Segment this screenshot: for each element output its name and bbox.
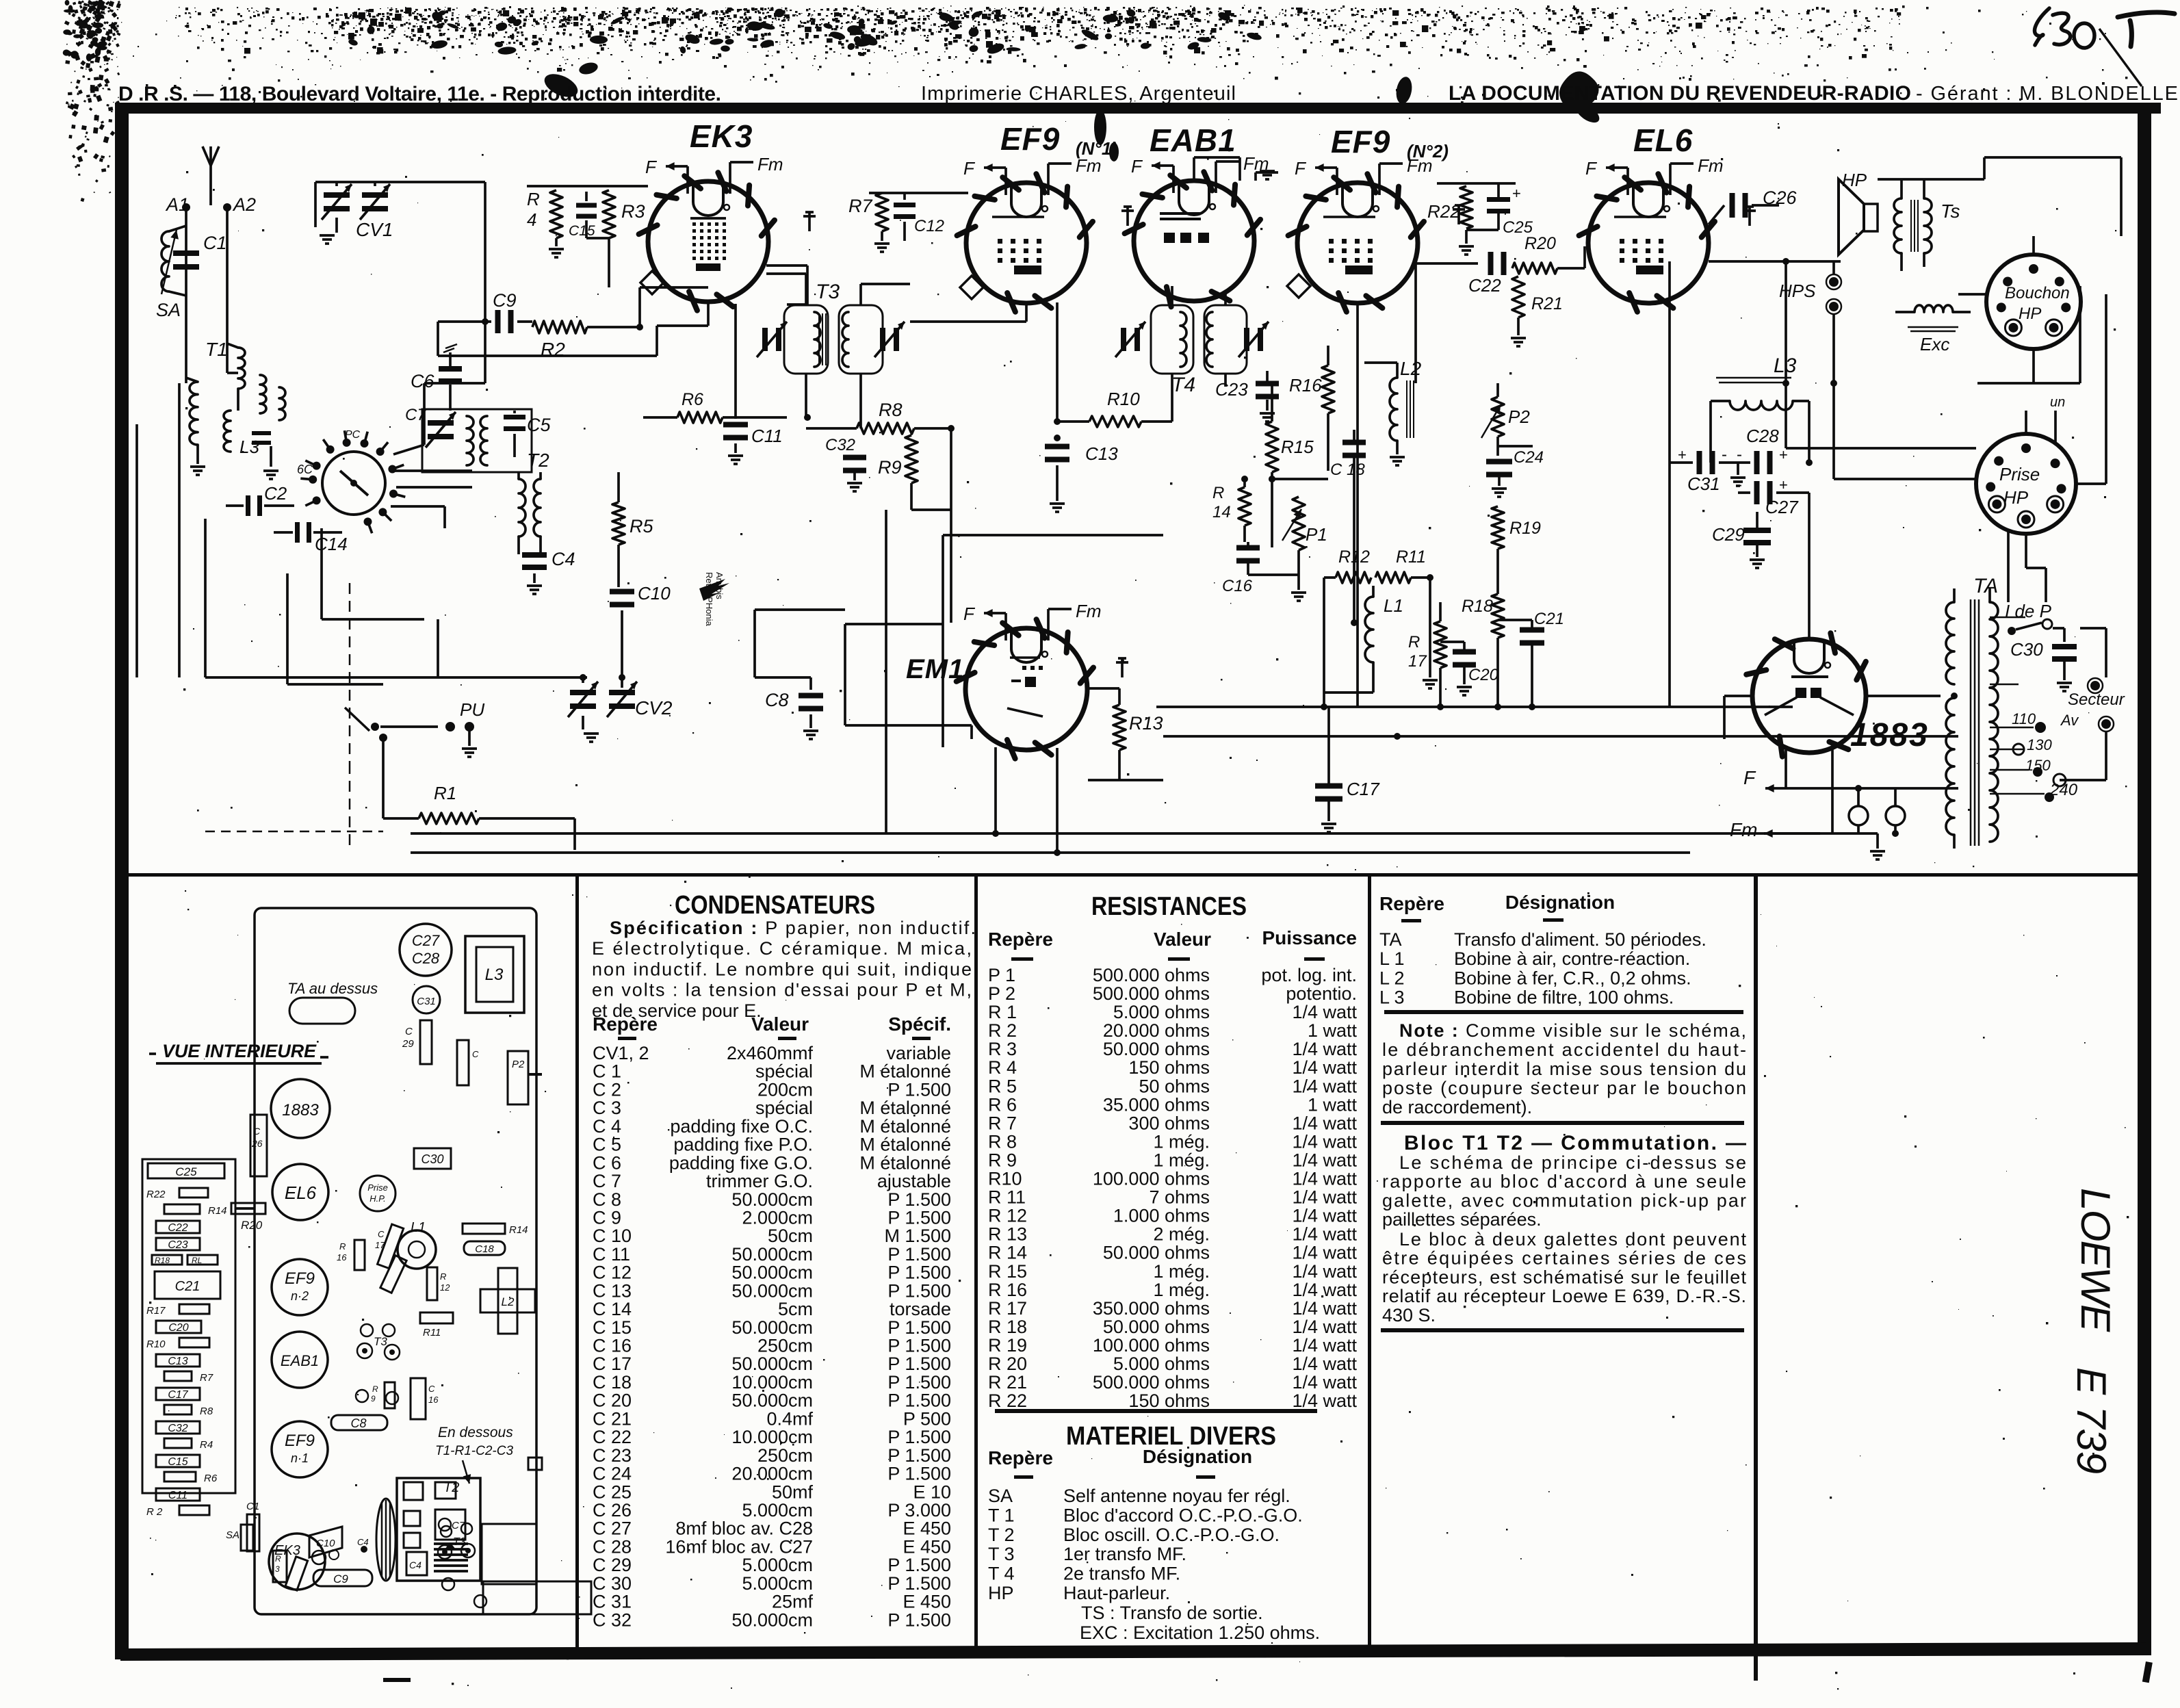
svg-text:C17: C17 <box>1347 779 1380 799</box>
svg-text:C4: C4 <box>409 1560 421 1570</box>
svg-text:SA: SA <box>988 1486 1013 1506</box>
svg-text:R9: R9 <box>878 457 902 478</box>
svg-text:C32: C32 <box>168 1423 187 1434</box>
svg-text:SA: SA <box>156 300 181 320</box>
svg-text:PC: PC <box>345 429 361 441</box>
svg-text:R 6: R 6 <box>988 1094 1017 1115</box>
svg-text:C20: C20 <box>168 1322 188 1334</box>
svg-text:padding fixe P.O.: padding fixe P.O. <box>673 1135 813 1155</box>
svg-text:Repère: Repère <box>1379 893 1444 914</box>
svg-text:T 4: T 4 <box>988 1564 1015 1584</box>
svg-text:R: R <box>527 189 540 209</box>
svg-text:R 1: R 1 <box>988 1002 1017 1022</box>
svg-text:C20: C20 <box>1468 666 1499 684</box>
svg-text:F: F <box>963 158 976 179</box>
svg-text:R11: R11 <box>423 1327 441 1338</box>
svg-text:C 5: C 5 <box>593 1135 621 1155</box>
svg-text:R 3: R 3 <box>988 1039 1017 1059</box>
svg-text:R 15: R 15 <box>988 1261 1027 1282</box>
svg-text:C22: C22 <box>168 1222 187 1234</box>
svg-text:R3: R3 <box>621 201 645 222</box>
svg-text:C2: C2 <box>264 483 287 504</box>
svg-text:EF9: EF9 <box>1000 121 1060 157</box>
svg-text:CV2: CV2 <box>635 697 673 719</box>
svg-text:R: R <box>440 1271 446 1282</box>
svg-text:+: + <box>1678 446 1687 463</box>
svg-text:de raccordement).: de raccordement). <box>1382 1097 1532 1117</box>
svg-text:P 1.500: P 1.500 <box>887 1336 951 1356</box>
svg-text:P 1.500: P 1.500 <box>887 1555 951 1575</box>
svg-text:C25: C25 <box>175 1165 197 1178</box>
svg-text:C8: C8 <box>350 1416 366 1430</box>
svg-text:350.000 ohms: 350.000 ohms <box>1093 1298 1210 1319</box>
svg-text:50.000cm: 50.000cm <box>731 1244 813 1265</box>
svg-text:LOEWE: LOEWE <box>2073 1188 2118 1333</box>
svg-text:C27: C27 <box>1765 497 1799 517</box>
svg-text:100.000 ohms: 100.000 ohms <box>1093 1335 1210 1356</box>
svg-text:R4: R4 <box>200 1439 213 1451</box>
svg-text:Fm: Fm <box>1076 601 1102 621</box>
svg-text:C 29: C 29 <box>593 1555 632 1575</box>
svg-text:C32: C32 <box>825 436 855 454</box>
svg-text:En dessous: En dessous <box>438 1425 513 1440</box>
svg-text:25mf: 25mf <box>772 1592 814 1612</box>
svg-text:C 16: C 16 <box>593 1336 632 1356</box>
svg-text:1 watt: 1 watt <box>1308 1094 1358 1115</box>
svg-text:F: F <box>1743 767 1756 788</box>
svg-text:50.000cm: 50.000cm <box>731 1280 813 1301</box>
svg-text:torsade: torsade <box>890 1299 951 1319</box>
svg-text:C15: C15 <box>168 1456 187 1468</box>
svg-text:130: 130 <box>2027 736 2052 753</box>
svg-text:1/4 watt: 1/4 watt <box>1292 1298 1357 1319</box>
svg-text:D .R .S. — 118, Boulevard Volt: D .R .S. — 118, Boulevard Voltaire, 11e.… <box>118 83 721 105</box>
svg-text:5.000cm: 5.000cm <box>742 1555 813 1575</box>
svg-text:C 28: C 28 <box>593 1536 632 1557</box>
svg-text:C21: C21 <box>1534 610 1564 628</box>
svg-text:C 26: C 26 <box>593 1500 632 1521</box>
svg-text:T1: T1 <box>205 339 228 360</box>
svg-text:Valeur: Valeur <box>751 1013 809 1035</box>
svg-text:R12: R12 <box>1338 547 1370 567</box>
svg-text:M étalonné: M étalonné <box>859 1116 951 1137</box>
svg-text:C 6: C 6 <box>593 1152 621 1173</box>
svg-text:4: 4 <box>527 209 536 230</box>
svg-text:C 23: C 23 <box>593 1445 632 1466</box>
svg-text:P 1.500: P 1.500 <box>887 1189 951 1210</box>
svg-text:P1: P1 <box>1306 524 1327 545</box>
svg-text:50.000cm: 50.000cm <box>731 1354 813 1374</box>
svg-text:C 14: C 14 <box>593 1299 632 1319</box>
svg-text:5.000 ohms: 5.000 ohms <box>1113 1354 1210 1374</box>
svg-text:padding fixe O.C.: padding fixe O.C. <box>670 1116 813 1137</box>
svg-text:0.4mf: 0.4mf <box>766 1408 813 1429</box>
svg-text:C 32: C 32 <box>593 1609 632 1630</box>
svg-text:T3: T3 <box>816 281 840 303</box>
svg-text:C28: C28 <box>1746 426 1779 446</box>
svg-text:P 1.500: P 1.500 <box>887 1079 951 1100</box>
svg-text:P2: P2 <box>512 1059 525 1070</box>
svg-text:C11: C11 <box>751 426 783 446</box>
svg-text:1/4 watt: 1/4 watt <box>1292 1057 1357 1078</box>
svg-text:2.000cm: 2.000cm <box>742 1208 813 1228</box>
svg-text:5.000cm: 5.000cm <box>742 1500 813 1521</box>
svg-text:1/4 watt: 1/4 watt <box>1292 1261 1357 1282</box>
svg-text:A2: A2 <box>232 194 256 215</box>
svg-text:10.000cm: 10.000cm <box>731 1372 813 1393</box>
svg-text:VUE INTERIEURE: VUE INTERIEURE <box>162 1041 317 1061</box>
svg-text:R 2: R 2 <box>146 1506 163 1518</box>
svg-text:1/4 watt: 1/4 watt <box>1292 1076 1357 1096</box>
svg-text:C13: C13 <box>1085 443 1118 464</box>
svg-text:C 27: C 27 <box>593 1518 632 1539</box>
svg-text:TA: TA <box>1379 929 1402 950</box>
svg-text:P 1.500: P 1.500 <box>887 1390 951 1411</box>
svg-text:PU: PU <box>460 699 484 720</box>
svg-text:50mf: 50mf <box>772 1481 814 1502</box>
svg-text:P 1.500: P 1.500 <box>887 1573 951 1594</box>
svg-text:R 9: R 9 <box>988 1150 1017 1171</box>
svg-text:non inductif. Le nombre qui su: non inductif. Le nombre qui suit, indiqu… <box>592 959 972 979</box>
svg-text:R 20: R 20 <box>988 1354 1027 1374</box>
svg-text:spécial: spécial <box>755 1098 813 1118</box>
svg-text:1/4 watt: 1/4 watt <box>1292 1002 1357 1022</box>
svg-text:C: C <box>428 1384 435 1394</box>
svg-text:M 1.500: M 1.500 <box>884 1226 951 1246</box>
svg-text:T 1: T 1 <box>988 1505 1015 1525</box>
svg-text:M étalonné: M étalonné <box>859 1135 951 1155</box>
svg-text:T2: T2 <box>527 450 549 471</box>
svg-text:35.000 ohms: 35.000 ohms <box>1103 1094 1210 1115</box>
svg-text:-: - <box>1737 445 1742 464</box>
svg-text:1/4 watt: 1/4 watt <box>1292 1206 1357 1226</box>
svg-text:EM1: EM1 <box>906 654 964 684</box>
svg-text:+: + <box>1779 476 1788 493</box>
svg-text:TA au dessus: TA au dessus <box>287 980 378 997</box>
svg-text:L 2: L 2 <box>1379 968 1405 988</box>
svg-text:E 450: E 450 <box>903 1518 951 1539</box>
svg-text:M étalonné: M étalonné <box>859 1061 951 1082</box>
svg-text:500.000 ohms: 500.000 ohms <box>1093 965 1210 985</box>
svg-text:F: F <box>645 157 658 177</box>
svg-text:EF9: EF9 <box>1331 124 1390 159</box>
svg-text:R1: R1 <box>434 783 456 803</box>
svg-text:50.000 ohms: 50.000 ohms <box>1103 1243 1210 1263</box>
svg-text:C 18: C 18 <box>1330 461 1365 479</box>
svg-text:50.000 ohms: 50.000 ohms <box>1103 1317 1210 1337</box>
svg-text:C 24: C 24 <box>593 1464 632 1484</box>
svg-text:C 11: C 11 <box>593 1244 630 1265</box>
svg-text:P 1.500: P 1.500 <box>887 1317 951 1338</box>
svg-text:C 3: C 3 <box>593 1098 621 1118</box>
svg-text:5.000cm: 5.000cm <box>742 1573 813 1594</box>
svg-text:R5: R5 <box>630 516 653 536</box>
svg-text:17: 17 <box>1408 652 1427 671</box>
svg-text:C17: C17 <box>168 1389 188 1401</box>
svg-text:14: 14 <box>1212 503 1231 521</box>
svg-text:E 739: E 739 <box>2068 1367 2114 1475</box>
svg-text:C14: C14 <box>315 534 348 554</box>
svg-text:Bobine de filtre, 100 ohms.: Bobine de filtre, 100 ohms. <box>1454 987 1674 1008</box>
svg-text:Haut-parleur.: Haut-parleur. <box>1063 1583 1170 1603</box>
svg-text:20.000 ohms: 20.000 ohms <box>1103 1020 1210 1041</box>
svg-text:P 1.500: P 1.500 <box>887 1263 951 1283</box>
svg-text:R 8: R 8 <box>988 1131 1017 1152</box>
svg-text:M étalonné: M étalonné <box>859 1152 951 1173</box>
svg-text:R 22: R 22 <box>988 1390 1027 1411</box>
svg-text:TA: TA <box>1973 575 1998 597</box>
svg-text:C 15: C 15 <box>593 1317 632 1338</box>
svg-text:C 7: C 7 <box>593 1171 621 1191</box>
svg-text:EAB1: EAB1 <box>281 1352 319 1369</box>
svg-text:1er transfo MF.: 1er transfo MF. <box>1063 1544 1186 1564</box>
svg-text:1 watt: 1 watt <box>1308 1020 1358 1041</box>
svg-text:trimmer G.O.: trimmer G.O. <box>706 1171 813 1191</box>
svg-text:R13: R13 <box>1129 713 1163 734</box>
svg-text:50.000cm: 50.000cm <box>731 1609 813 1630</box>
svg-text:TS : Transfo de sortie.: TS : Transfo de sortie. <box>1081 1603 1263 1623</box>
svg-text:1.000 ohms: 1.000 ohms <box>1113 1206 1210 1226</box>
svg-text:R10: R10 <box>1107 389 1140 409</box>
svg-text:1/4 watt: 1/4 watt <box>1292 1187 1357 1208</box>
svg-text:L3: L3 <box>1774 354 1797 377</box>
svg-text:Fm: Fm <box>1698 155 1724 176</box>
svg-text:1/4 watt: 1/4 watt <box>1292 1354 1357 1374</box>
svg-text:150 ohms: 150 ohms <box>1128 1390 1210 1411</box>
svg-text:C 22: C 22 <box>593 1427 632 1447</box>
svg-text:relatif au récepteur Loewe E 6: relatif au récepteur Loewe E 639, D.-R.-… <box>1382 1286 1746 1306</box>
svg-text:RESISTANCES: RESISTANCES <box>1091 892 1247 921</box>
svg-text:2 még.: 2 még. <box>1153 1224 1210 1245</box>
svg-text:rapporte au bloc d'accord à un: rapporte au bloc d'accord à une seule <box>1382 1172 1746 1192</box>
svg-text:n·2: n·2 <box>291 1289 309 1303</box>
svg-text:+: + <box>1512 185 1521 202</box>
svg-text:C24: C24 <box>1514 448 1544 467</box>
svg-text:C9: C9 <box>333 1573 348 1586</box>
svg-text:un: un <box>2050 395 2065 410</box>
svg-text:C28: C28 <box>412 950 440 967</box>
svg-text:ajustable: ajustable <box>877 1171 951 1191</box>
svg-text:R6: R6 <box>682 390 703 409</box>
svg-text:T4: T4 <box>1171 374 1195 396</box>
svg-text:1/4 watt: 1/4 watt <box>1292 1131 1357 1152</box>
svg-text:Bobine à fer, C.R., 0,2 ohms.: Bobine à fer, C.R., 0,2 ohms. <box>1454 968 1691 988</box>
svg-text:29: 29 <box>402 1038 414 1050</box>
svg-text:L 1: L 1 <box>1379 948 1405 969</box>
svg-text:T 2: T 2 <box>988 1525 1015 1545</box>
svg-text:CONDENSATEURS: CONDENSATEURS <box>675 891 875 920</box>
svg-text:R 13: R 13 <box>988 1224 1027 1245</box>
svg-text:C 8: C 8 <box>593 1189 621 1210</box>
svg-text:Bloc d'accord O.C.-P.O.-G.O.: Bloc d'accord O.C.-P.O.-G.O. <box>1063 1505 1303 1525</box>
svg-text:L3: L3 <box>485 966 504 984</box>
svg-text:1/4 watt: 1/4 watt <box>1292 1039 1357 1059</box>
svg-text:1/4 watt: 1/4 watt <box>1292 1224 1357 1245</box>
svg-text:parleur interdit la mise sous: parleur interdit la mise sous tension du <box>1382 1059 1746 1079</box>
svg-text:T3: T3 <box>374 1335 387 1348</box>
svg-text:1/4 watt: 1/4 watt <box>1292 1390 1357 1411</box>
svg-text:C18: C18 <box>475 1243 494 1255</box>
svg-text:R 11: R 11 <box>988 1187 1026 1208</box>
svg-text:R7: R7 <box>848 196 872 216</box>
svg-text:50.000cm: 50.000cm <box>731 1390 813 1411</box>
svg-text:1 még.: 1 még. <box>1153 1280 1210 1300</box>
svg-text:R8: R8 <box>200 1406 213 1417</box>
svg-text:50cm: 50cm <box>768 1226 813 1246</box>
svg-text:C22: C22 <box>1468 275 1501 296</box>
svg-text:C: C <box>472 1049 479 1059</box>
svg-text:SA: SA <box>226 1529 239 1541</box>
svg-text:EF9: EF9 <box>285 1269 315 1288</box>
svg-text:16: 16 <box>337 1252 347 1263</box>
svg-text:L3: L3 <box>239 437 259 457</box>
svg-text:R18: R18 <box>1462 597 1493 616</box>
svg-text:Fm: Fm <box>757 154 783 174</box>
svg-text:C: C <box>378 1229 385 1239</box>
svg-text:F: F <box>1295 158 1307 179</box>
svg-text:Anubis: Anubis <box>714 572 725 599</box>
svg-text:C 12: C 12 <box>593 1263 632 1283</box>
svg-text:C: C <box>253 1126 261 1137</box>
svg-text:Puissance: Puissance <box>1262 927 1357 948</box>
svg-text:R14: R14 <box>509 1224 528 1236</box>
svg-text:P 1.500: P 1.500 <box>887 1280 951 1301</box>
svg-text:C4: C4 <box>552 549 575 569</box>
svg-text:Bloc T1 T2 — Commutation. —: Bloc T1 T2 — Commutation. — <box>1404 1132 1746 1154</box>
svg-text:1/4 watt: 1/4 watt <box>1292 1372 1357 1393</box>
svg-text:P 500: P 500 <box>903 1408 951 1429</box>
svg-text:Repère: Repère <box>988 929 1053 950</box>
svg-text:Valeur: Valeur <box>1154 929 1211 950</box>
svg-text:Self antenne noyau fer régl.: Self antenne noyau fer régl. <box>1063 1486 1290 1506</box>
svg-text:EAB1: EAB1 <box>1150 122 1236 158</box>
svg-text:C8: C8 <box>765 690 789 710</box>
svg-text:R 21: R 21 <box>988 1372 1027 1393</box>
svg-text:P 2: P 2 <box>988 983 1015 1004</box>
svg-text:7 ohms: 7 ohms <box>1149 1187 1210 1208</box>
svg-text:Av: Av <box>2060 712 2079 729</box>
svg-text:20.000cm: 20.000cm <box>731 1464 813 1484</box>
svg-text:P 3.000: P 3.000 <box>887 1500 951 1521</box>
svg-text:5.000 ohms: 5.000 ohms <box>1113 1002 1210 1022</box>
svg-text:L2: L2 <box>502 1295 515 1308</box>
svg-text:H.P.: H.P. <box>369 1193 386 1204</box>
svg-text:Prise: Prise <box>1999 464 2040 484</box>
svg-text:500.000 ohms: 500.000 ohms <box>1093 1372 1210 1393</box>
svg-text:R20: R20 <box>241 1219 263 1232</box>
svg-text:P 1.500: P 1.500 <box>887 1464 951 1484</box>
svg-text:R10: R10 <box>988 1169 1022 1189</box>
svg-text:12: 12 <box>440 1282 450 1293</box>
svg-text:1883: 1883 <box>282 1101 319 1120</box>
svg-text:R: R <box>275 1554 281 1564</box>
svg-text:C13: C13 <box>168 1356 187 1367</box>
svg-text:26: 26 <box>251 1138 263 1149</box>
svg-text:C 21: C 21 <box>593 1408 632 1429</box>
svg-text:R11: R11 <box>1396 547 1426 567</box>
svg-text:R 2: R 2 <box>988 1020 1017 1041</box>
svg-text:1/4 watt: 1/4 watt <box>1292 1280 1357 1300</box>
svg-text:R 14: R 14 <box>988 1243 1027 1263</box>
svg-text:L2: L2 <box>1400 358 1422 379</box>
svg-text:C: C <box>405 1026 413 1037</box>
svg-text:1 még.: 1 még. <box>1153 1150 1210 1171</box>
svg-text:pot. log. int.: pot. log. int. <box>1261 965 1357 985</box>
svg-text:2x460mmf: 2x460mmf <box>727 1043 814 1063</box>
svg-text:1/4 watt: 1/4 watt <box>1292 1113 1357 1133</box>
svg-text:E 450: E 450 <box>903 1592 951 1612</box>
svg-text:HP: HP <box>988 1583 1014 1603</box>
svg-text:Le bloc à deux galettes dont p: Le bloc à deux galettes dont peuvent <box>1399 1229 1746 1250</box>
svg-text:50.000cm: 50.000cm <box>731 1189 813 1210</box>
svg-text:430 S.: 430 S. <box>1382 1305 1436 1325</box>
svg-text:HP: HP <box>2019 305 2041 323</box>
svg-text:en volts : la tension d'essai: en volts : la tension d'essai pour P et … <box>592 980 972 1000</box>
svg-text:RL: RL <box>192 1256 202 1265</box>
svg-text:R19: R19 <box>1509 519 1541 538</box>
svg-text:Retro-PHonia: Retro-PHonia <box>704 572 714 627</box>
svg-text:potentio.: potentio. <box>1286 983 1357 1004</box>
svg-text:300 ohms: 300 ohms <box>1128 1113 1210 1133</box>
svg-text:L1: L1 <box>411 1220 426 1235</box>
svg-text:F: F <box>1585 158 1598 179</box>
svg-text:C6: C6 <box>411 371 434 391</box>
svg-text:1/4 watt: 1/4 watt <box>1292 1150 1357 1171</box>
svg-text:+: + <box>1779 446 1788 463</box>
svg-text:C15: C15 <box>569 223 595 239</box>
svg-text:100.000 ohms: 100.000 ohms <box>1093 1169 1210 1189</box>
svg-text:R17: R17 <box>146 1305 166 1317</box>
svg-text:R21: R21 <box>1531 294 1563 313</box>
svg-text:R10: R10 <box>146 1338 166 1350</box>
svg-text:poste (coupure secteur par le: poste (coupure secteur par le bouchon <box>1382 1078 1746 1098</box>
svg-text:1 még.: 1 még. <box>1153 1131 1210 1152</box>
svg-text:P 1.500: P 1.500 <box>887 1244 951 1265</box>
svg-text:C 13: C 13 <box>593 1280 632 1301</box>
svg-text:110: 110 <box>2012 710 2036 727</box>
svg-text:50.000cm: 50.000cm <box>731 1263 813 1283</box>
svg-text:R22: R22 <box>1427 201 1460 222</box>
svg-text:50.000cm: 50.000cm <box>731 1317 813 1338</box>
svg-text:EL6: EL6 <box>285 1182 317 1203</box>
svg-text:Spécification : P papier, non: Spécification : P papier, non inductif. <box>610 918 976 938</box>
svg-text:R6: R6 <box>204 1473 218 1484</box>
svg-text:CV1, 2: CV1, 2 <box>593 1043 649 1063</box>
svg-text:P 1.500: P 1.500 <box>887 1208 951 1228</box>
svg-text:F: F <box>1131 156 1143 177</box>
svg-text:C 30: C 30 <box>593 1573 632 1594</box>
svg-text:T 3: T 3 <box>988 1544 1015 1564</box>
svg-text:16mf bloc av. C27: 16mf bloc av. C27 <box>665 1536 813 1557</box>
svg-text:R 19: R 19 <box>988 1335 1027 1356</box>
svg-text:R 12: R 12 <box>988 1206 1027 1226</box>
svg-text:P 1.500: P 1.500 <box>887 1427 951 1447</box>
svg-text:C 17: C 17 <box>593 1354 632 1374</box>
svg-text:1 még.: 1 még. <box>1153 1261 1210 1282</box>
svg-text:F: F <box>963 604 976 624</box>
svg-text:Note : Comme visible sur le sc: Note : Comme visible sur le schéma, <box>1399 1020 1746 1041</box>
svg-text:C27: C27 <box>412 932 440 949</box>
svg-text:C10: C10 <box>638 583 671 604</box>
svg-text:I de P: I de P <box>2005 601 2052 621</box>
svg-text:E 10: E 10 <box>913 1481 951 1502</box>
svg-text:Repère: Repère <box>593 1013 658 1035</box>
svg-text:LA DOCUMENTATION DU REVENDEUR-: LA DOCUMENTATION DU REVENDEUR-RADIO <box>1449 82 1911 105</box>
svg-text:-: - <box>1722 445 1727 464</box>
svg-text:C31: C31 <box>1687 474 1720 494</box>
svg-text:n·1: n·1 <box>291 1451 309 1465</box>
svg-text:Désignation: Désignation <box>1505 892 1615 913</box>
